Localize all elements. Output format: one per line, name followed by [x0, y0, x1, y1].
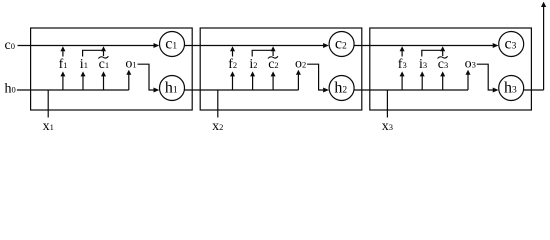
- svg-text:c0: c0: [5, 38, 15, 53]
- svg-text:o3: o3: [465, 57, 476, 72]
- svg-text:f3: f3: [398, 57, 407, 72]
- svg-text:o2: o2: [295, 57, 306, 72]
- svg-text:x3: x3: [382, 119, 393, 134]
- svg-text:h0: h0: [5, 82, 16, 97]
- svg-text:f2: f2: [228, 57, 237, 72]
- svg-text:i2: i2: [249, 57, 257, 72]
- svg-text:c2: c2: [268, 57, 278, 72]
- svg-text:i1: i1: [80, 57, 88, 72]
- svg-text:c3: c3: [438, 57, 448, 72]
- svg-text:c1: c1: [99, 57, 109, 72]
- svg-text:o1: o1: [125, 57, 136, 72]
- svg-text:x2: x2: [212, 119, 223, 134]
- svg-text:f1: f1: [59, 57, 68, 72]
- svg-text:x1: x1: [43, 119, 54, 134]
- svg-text:i3: i3: [419, 57, 427, 72]
